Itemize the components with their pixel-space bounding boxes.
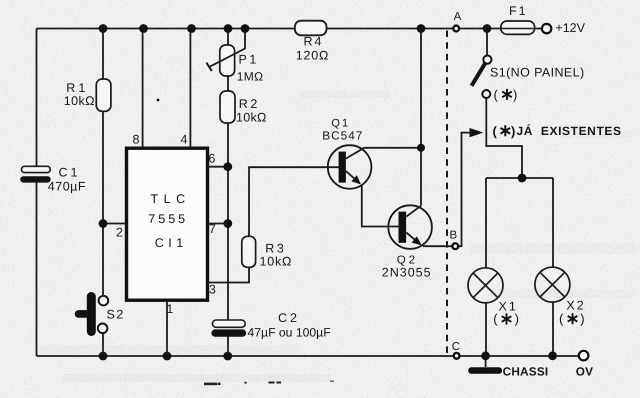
svg-text:OV: OV [576,364,593,378]
svg-text:+12V: +12V [555,21,585,35]
svg-text:7: 7 [209,222,216,236]
svg-text:): ) [580,311,584,326]
junction top bus / S1 branch [483,24,492,33]
resistor R4 [295,21,327,36]
wire: R1 bottom to S2 (through pin2 node) [102,111,104,296]
junction lamp bus [518,174,527,183]
capacitor C2 bottom plate [211,329,246,336]
junction top bus / pin 8 [139,24,148,33]
svg-text:R3: R3 [265,242,286,256]
wire: top bus to P1 [227,29,229,46]
wire: pin 1 to ground bus [166,300,168,356]
svg-text:A: A [454,11,462,23]
svg-text:470µF: 470µF [48,179,86,193]
capacitor C1 top plate [22,166,51,172]
junction Q1 collector / Q2 collector [417,144,425,152]
svg-text:S1(NO PAINEL): S1(NO PAINEL) [490,66,585,80]
wire: top supply bus [37,28,543,30]
wire: bottom ground bus [37,355,579,357]
wire: C1 bottom to ground bus [36,183,38,357]
svg-text:B: B [450,229,458,241]
svg-text:P1: P1 [239,53,259,67]
wire: R3 top to Q1 base [249,167,339,236]
node C [454,353,460,359]
svg-text:TLC: TLC [151,192,191,206]
svg-text:(: ( [493,123,498,138]
wire: pin 6 stub [208,166,229,168]
chassis symbol [472,367,499,374]
junction top bus / P1 wiper [241,24,250,33]
wire: pin 7 stub [208,223,229,225]
wire: top bus to pin 4 [189,29,191,149]
svg-text:2N3055: 2N3055 [382,265,432,279]
wire: top bus to pin 8 [142,29,144,149]
wire: pin 3 to R3 bottom [208,267,250,282]
terminal 0V [579,351,589,361]
svg-text:47µF ou 100µF: 47µF ou 100µF [248,326,331,340]
svg-text:4: 4 [181,133,188,147]
svg-text:2: 2 [116,225,123,239]
svg-text:): ) [515,311,519,326]
wire: top bus to S1 [486,29,488,56]
wire: P1 to R2 [227,76,229,91]
wire: top bus to R1 [102,29,104,80]
wire: node B up to arrow [455,133,469,247]
pushbutton S2 contacts [99,296,109,306]
resistor R2 [220,91,235,123]
potentiometer P1 body [220,45,235,76]
lamp X2 [535,267,570,302]
svg-text:): ) [511,123,515,138]
wire: Q1 collector to junction [346,148,421,159]
junction top bus / pin 4 [187,24,196,33]
capacitor C1 bottom plate [20,176,51,182]
junction ground bus / C2 [223,352,232,361]
svg-text:S2: S2 [107,308,125,322]
svg-text:(: ( [559,311,564,326]
wire: lamp top bus [486,177,553,179]
svg-text:): ) [513,87,517,102]
svg-text:CHASSI: CHASSI [503,364,549,378]
svg-text:6: 6 [208,152,215,166]
wire: pin 2 stub [103,223,127,225]
resistor R3 [242,236,256,267]
stray scan dot [157,99,160,102]
svg-text:JÁ EXISTENTES: JÁ EXISTENTES [517,124,622,138]
wire: S1 terminal (*) down and over to lamp bus [486,98,522,178]
annotation (*) JA EXISTENTES [493,123,622,138]
svg-text:3: 3 [209,283,216,297]
svg-text:CI1: CI1 [155,236,188,250]
svg-text:C1: C1 [59,166,81,180]
svg-text:10kΩ: 10kΩ [64,94,95,108]
transistor Q2 [388,205,432,249]
switch S1 bottom contact [482,90,490,98]
wire: Q2 emitter to node B [423,245,452,247]
svg-text:R1: R1 [66,81,88,95]
annotation (*) at S1 [494,87,518,102]
switch S1 top contact [483,56,491,64]
scan ghost smudges [40,90,635,382]
junction pin 7 [223,219,232,228]
pushbutton S2 plunger [87,297,96,332]
wire: lamp X1 bottom to ground bus [485,303,487,356]
resistor R1 [96,79,111,111]
svg-text:(: ( [493,311,498,326]
lamp X1 [468,268,503,303]
caption fragments (cropped figure caption) [204,381,334,386]
node B [452,243,458,249]
svg-text:10kΩ: 10kΩ [236,111,267,125]
wire: left edge down to C1 [36,29,38,167]
svg-text:F1: F1 [509,4,528,18]
wire: chassis stem [485,356,487,367]
junction pin 6 [223,162,232,171]
junction ground bus / X1 and chassis [481,351,490,360]
wire: lamp X2 bottom to ground bus [552,302,554,356]
junction ground bus / X2 [548,351,557,360]
wire: C2 bottom to ground bus [227,337,229,357]
svg-text:R2: R2 [239,97,260,111]
junction ground bus / S2 [99,352,108,361]
wire: lamp X2 riser [552,178,554,267]
junction top bus / R1 [99,24,108,33]
potentiometer P1 wiper tick [206,63,211,71]
capacitor C2 top plate [212,320,245,327]
IC U1 TLC7555 body [127,148,208,300]
junction top bus / collector branch [417,24,426,33]
wire: R2 down through pins 6,7 to C2 [227,123,229,320]
wire: Q1 emitter to Q2 base [362,186,399,227]
dashed boundary line [446,31,448,356]
svg-text:R4: R4 [304,35,324,49]
svg-text:1: 1 [166,302,173,316]
svg-text:BC547: BC547 [322,129,363,143]
svg-text:7555: 7555 [148,212,188,226]
svg-text:10kΩ: 10kΩ [260,255,293,269]
svg-text:120Ω: 120Ω [296,48,329,62]
annotation (*) under X1 [493,311,519,326]
annotation (*) under X2 [559,311,585,326]
wire: top bus down to Q2 collector [420,29,422,206]
junction pin 2 / R1 [99,219,108,228]
svg-text:8: 8 [133,133,140,147]
transistor Q1 [328,145,372,189]
wire: lamp X1 riser [485,178,487,268]
fuse F1 [501,21,535,34]
svg-text:1MΩ: 1MΩ [237,70,264,84]
wire: S2 bottom to ground bus [102,333,104,356]
switch S1 lever [472,63,486,86]
svg-text:(: ( [494,87,499,102]
node A [453,26,459,32]
junction top bus / P1 [224,24,233,33]
arrow into existing wiring [470,128,484,137]
svg-text:C2: C2 [278,311,300,325]
junction ground bus / pin 1 [163,352,172,361]
terminal +12V [542,24,551,33]
potentiometer P1 wiper arm [210,29,246,67]
svg-text:C: C [452,341,460,353]
